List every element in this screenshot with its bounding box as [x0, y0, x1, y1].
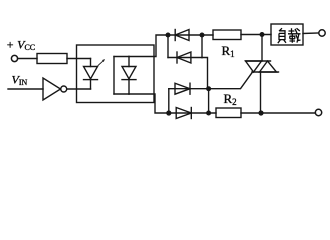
svg-text:R1: R1 [222, 43, 235, 59]
node D junction dot [166, 110, 171, 115]
node B junction dot [200, 33, 205, 38]
resistor R (input limiting) [37, 54, 67, 64]
wire R1 to load node [241, 34, 271, 36]
wire load to terminal [303, 32, 319, 35]
wire D3 row [169, 88, 209, 90]
LED D inside optocoupler [84, 59, 98, 90]
wire VIN input [8, 88, 43, 90]
label load (fu zai) [278, 28, 301, 43]
node C junction dot [206, 86, 211, 91]
phototriac inside optocoupler [114, 57, 136, 95]
node VCC terminal [11, 55, 17, 61]
node F junction dot [260, 32, 265, 37]
wire jog D2 right to D3 right [202, 58, 208, 89]
wire node C down to node E [208, 89, 210, 113]
wire node A down to D2 [167, 35, 169, 58]
node G junction dot [258, 110, 263, 115]
wire MT1 [260, 72, 262, 113]
diode D3 [175, 83, 190, 94]
wire node B down to D2 right [201, 35, 203, 58]
wire D4 row [169, 112, 216, 114]
wire phototriac top lead to bridge [129, 35, 168, 57]
node E junction dot [206, 111, 211, 116]
diode D1 [175, 30, 189, 41]
node A junction dot [166, 33, 171, 38]
glyph FU [278, 28, 286, 43]
inverter U2 [43, 78, 61, 100]
wire MT2 [261, 35, 263, 62]
wire D1 to node B [168, 34, 213, 36]
wire gate [209, 72, 253, 89]
wire R2 to bottom rail [241, 112, 315, 114]
diode D2 [177, 52, 191, 63]
wire VCC to resistor [18, 58, 37, 60]
optocoupler U1 box [77, 45, 155, 103]
resistor R2 [216, 108, 241, 118]
glyph ZAI [288, 28, 301, 43]
wire D2 row [168, 57, 202, 59]
wire phototriac bottom lead to bridge [129, 94, 169, 113]
wire resistor to LED anode [67, 58, 91, 60]
node AC top terminal [319, 30, 325, 36]
resistor R1 [213, 30, 241, 40]
load box [271, 24, 303, 45]
svg-text:VIN: VIN [12, 73, 28, 88]
svg-text:R2: R2 [224, 91, 237, 107]
node AC bottom terminal [315, 109, 321, 115]
light arrow [98, 59, 105, 66]
triac VT [246, 61, 279, 72]
diode D4 [176, 108, 191, 119]
svg-text:+ VCC: + VCC [6, 38, 35, 53]
wire inverter to LED cathode [67, 88, 91, 90]
wire D3 left down to D4 left [168, 89, 170, 113]
inverter bubble [61, 86, 67, 92]
